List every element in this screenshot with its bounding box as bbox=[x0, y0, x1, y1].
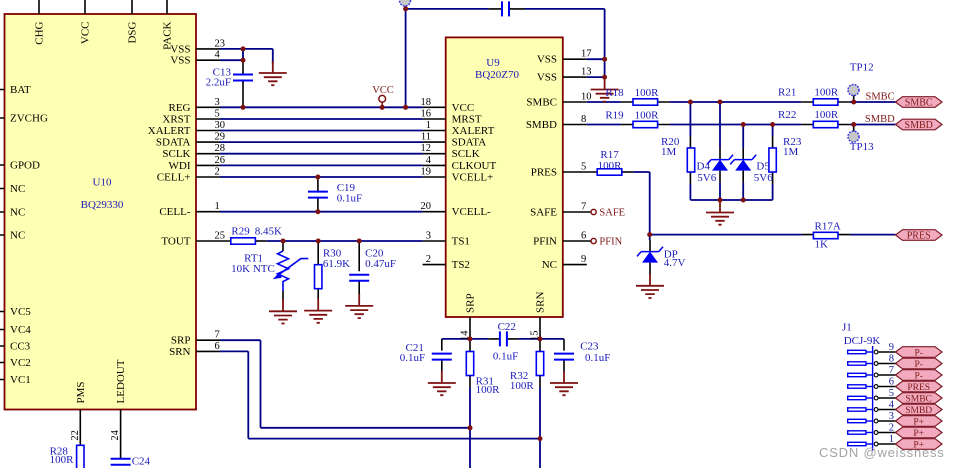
svg-text:SDATA: SDATA bbox=[156, 137, 191, 149]
svg-text:4: 4 bbox=[426, 155, 432, 166]
svg-text:XALERT: XALERT bbox=[452, 125, 495, 137]
svg-text:SMBD: SMBD bbox=[905, 406, 932, 416]
svg-text:30: 30 bbox=[215, 120, 226, 131]
svg-text:VSS: VSS bbox=[537, 72, 557, 84]
svg-text:2: 2 bbox=[426, 254, 431, 265]
svg-text:NC: NC bbox=[10, 207, 25, 219]
svg-text:LEDOUT: LEDOUT bbox=[115, 359, 127, 403]
svg-text:0.47uF: 0.47uF bbox=[365, 258, 396, 270]
svg-text:SRP: SRP bbox=[465, 293, 477, 313]
svg-text:3: 3 bbox=[889, 411, 894, 422]
svg-text:BQ29330: BQ29330 bbox=[81, 199, 124, 211]
svg-text:VC1: VC1 bbox=[10, 374, 31, 386]
svg-text:SAFE: SAFE bbox=[530, 207, 557, 219]
svg-text:5: 5 bbox=[215, 109, 220, 120]
svg-text:VC5: VC5 bbox=[10, 306, 31, 318]
svg-text:SMBC: SMBC bbox=[905, 395, 931, 405]
svg-text:8.45K: 8.45K bbox=[255, 226, 282, 238]
svg-text:SCLK: SCLK bbox=[162, 148, 190, 160]
svg-text:100R: 100R bbox=[476, 384, 501, 396]
svg-text:NC: NC bbox=[542, 259, 557, 271]
svg-text:20: 20 bbox=[421, 201, 432, 212]
svg-text:CELL-: CELL- bbox=[159, 206, 190, 218]
svg-text:U10: U10 bbox=[93, 177, 112, 189]
svg-text:SRN: SRN bbox=[169, 346, 190, 358]
svg-text:6: 6 bbox=[215, 341, 220, 352]
svg-text:8: 8 bbox=[889, 353, 894, 364]
svg-text:5V6: 5V6 bbox=[754, 172, 773, 184]
svg-text:29: 29 bbox=[215, 132, 226, 143]
svg-text:PMS: PMS bbox=[75, 381, 87, 403]
svg-text:VCC: VCC bbox=[80, 22, 92, 45]
svg-text:SRP: SRP bbox=[171, 335, 191, 347]
svg-text:2: 2 bbox=[889, 422, 894, 433]
svg-text:7: 7 bbox=[889, 365, 894, 376]
svg-text:11: 11 bbox=[421, 132, 431, 143]
svg-text:D4: D4 bbox=[697, 161, 711, 173]
svg-text:TP12: TP12 bbox=[850, 62, 874, 74]
svg-text:100R: 100R bbox=[598, 160, 623, 172]
svg-text:28: 28 bbox=[215, 143, 226, 154]
svg-text:XALERT: XALERT bbox=[148, 125, 191, 137]
svg-text:100R: 100R bbox=[50, 454, 75, 466]
svg-text:5V6: 5V6 bbox=[697, 172, 716, 184]
svg-text:6: 6 bbox=[581, 231, 586, 242]
svg-text:VCELL+: VCELL+ bbox=[452, 172, 494, 184]
svg-text:NC: NC bbox=[10, 230, 25, 242]
svg-text:C24: C24 bbox=[132, 456, 151, 468]
svg-text:C23: C23 bbox=[580, 341, 599, 353]
svg-text:SAFE: SAFE bbox=[599, 208, 625, 219]
svg-text:VCC: VCC bbox=[372, 85, 394, 96]
svg-text:R19: R19 bbox=[605, 109, 624, 121]
svg-text:TP13: TP13 bbox=[850, 141, 874, 153]
svg-text:J1: J1 bbox=[842, 322, 852, 334]
svg-text:6: 6 bbox=[889, 376, 894, 387]
svg-text:0.1uF: 0.1uF bbox=[585, 352, 610, 364]
svg-text:9: 9 bbox=[889, 342, 894, 353]
svg-text:P-: P- bbox=[914, 372, 922, 382]
svg-text:P-: P- bbox=[914, 360, 922, 370]
svg-text:SMBD: SMBD bbox=[865, 114, 895, 125]
svg-text:SDATA: SDATA bbox=[452, 137, 487, 149]
svg-text:SRN: SRN bbox=[535, 292, 547, 313]
svg-text:0.1uF: 0.1uF bbox=[337, 193, 362, 205]
svg-text:SMBC: SMBC bbox=[905, 98, 933, 109]
svg-text:SMBD: SMBD bbox=[905, 120, 933, 131]
svg-text:R22: R22 bbox=[778, 109, 796, 121]
svg-text:TOUT: TOUT bbox=[161, 236, 190, 248]
svg-text:4.7V: 4.7V bbox=[664, 257, 686, 269]
svg-text:WDI: WDI bbox=[169, 160, 191, 172]
svg-text:R29: R29 bbox=[231, 226, 250, 238]
svg-text:8: 8 bbox=[581, 114, 586, 125]
svg-text:PACK: PACK bbox=[162, 21, 174, 49]
svg-text:GPOD: GPOD bbox=[10, 160, 40, 172]
svg-text:DSG: DSG bbox=[127, 21, 139, 43]
svg-text:17: 17 bbox=[581, 49, 592, 60]
svg-text:NC: NC bbox=[10, 183, 25, 195]
svg-text:PRES: PRES bbox=[907, 231, 931, 242]
svg-text:22: 22 bbox=[70, 430, 81, 441]
svg-text:R18: R18 bbox=[605, 87, 624, 99]
svg-text:10K NTC: 10K NTC bbox=[231, 263, 275, 275]
svg-text:2: 2 bbox=[215, 167, 220, 178]
svg-text:TS2: TS2 bbox=[452, 259, 470, 271]
svg-text:VCELL-: VCELL- bbox=[452, 206, 491, 218]
svg-text:XRST: XRST bbox=[162, 114, 190, 126]
svg-text:10: 10 bbox=[581, 92, 592, 103]
svg-text:2.2uF: 2.2uF bbox=[206, 76, 231, 88]
svg-text:9: 9 bbox=[581, 254, 586, 265]
svg-text:VC4: VC4 bbox=[10, 324, 31, 336]
svg-text:14: 14 bbox=[460, 330, 471, 341]
svg-text:CLKOUT: CLKOUT bbox=[452, 160, 497, 172]
svg-text:3: 3 bbox=[426, 231, 431, 242]
svg-text:100R: 100R bbox=[814, 86, 839, 98]
svg-text:61.9K: 61.9K bbox=[323, 258, 350, 270]
svg-text:U9: U9 bbox=[486, 57, 500, 69]
svg-text:TS1: TS1 bbox=[452, 236, 470, 248]
svg-text:R17A: R17A bbox=[815, 220, 841, 232]
svg-text:CC3: CC3 bbox=[10, 341, 31, 353]
svg-text:P+: P+ bbox=[913, 429, 924, 439]
svg-text:CSDN @weissness: CSDN @weissness bbox=[819, 445, 945, 460]
svg-text:13: 13 bbox=[581, 67, 592, 78]
svg-text:7: 7 bbox=[215, 330, 220, 341]
svg-text:24: 24 bbox=[110, 429, 121, 440]
svg-text:R21: R21 bbox=[778, 86, 796, 98]
svg-text:BAT: BAT bbox=[10, 84, 31, 96]
svg-text:15: 15 bbox=[530, 331, 541, 342]
svg-text:MRST: MRST bbox=[452, 114, 482, 126]
svg-text:1: 1 bbox=[889, 434, 894, 445]
svg-text:VC2: VC2 bbox=[10, 357, 31, 369]
svg-text:BQ20Z70: BQ20Z70 bbox=[475, 69, 520, 81]
svg-text:100R: 100R bbox=[510, 380, 535, 392]
svg-text:CELL+: CELL+ bbox=[157, 172, 191, 184]
svg-text:12: 12 bbox=[421, 143, 432, 154]
svg-text:P-: P- bbox=[914, 349, 922, 359]
svg-text:P+: P+ bbox=[913, 418, 924, 428]
svg-text:VSS: VSS bbox=[537, 54, 557, 66]
svg-text:PFIN: PFIN bbox=[533, 236, 557, 248]
svg-text:16: 16 bbox=[421, 109, 432, 120]
svg-text:5: 5 bbox=[581, 162, 586, 173]
svg-text:1: 1 bbox=[426, 120, 431, 131]
svg-text:26: 26 bbox=[215, 155, 226, 166]
svg-text:D5: D5 bbox=[756, 161, 770, 173]
svg-text:0.1uF: 0.1uF bbox=[400, 352, 425, 364]
svg-text:4: 4 bbox=[215, 50, 221, 61]
svg-text:100R: 100R bbox=[814, 109, 839, 121]
svg-text:VCC: VCC bbox=[452, 102, 475, 114]
svg-text:PRES: PRES bbox=[531, 167, 557, 179]
svg-text:19: 19 bbox=[421, 167, 432, 178]
svg-text:SMBC: SMBC bbox=[526, 97, 557, 109]
svg-text:SMBD: SMBD bbox=[526, 119, 557, 131]
svg-text:ZVCHG: ZVCHG bbox=[10, 113, 48, 125]
svg-text:1K: 1K bbox=[815, 239, 829, 251]
svg-text:1M: 1M bbox=[661, 146, 677, 158]
svg-text:4: 4 bbox=[889, 399, 895, 410]
svg-text:25: 25 bbox=[215, 231, 226, 242]
svg-text:100R: 100R bbox=[635, 87, 660, 99]
svg-text:REG: REG bbox=[169, 102, 191, 114]
svg-text:PRES: PRES bbox=[907, 383, 930, 393]
svg-text:1M: 1M bbox=[783, 146, 799, 158]
svg-text:C22: C22 bbox=[498, 321, 516, 333]
svg-text:VSS: VSS bbox=[170, 55, 190, 67]
svg-text:0.1uF: 0.1uF bbox=[493, 351, 518, 363]
svg-text:SMBC: SMBC bbox=[866, 91, 895, 102]
svg-text:CHG: CHG bbox=[34, 21, 46, 44]
svg-text:5: 5 bbox=[889, 388, 894, 399]
svg-text:23: 23 bbox=[215, 38, 226, 49]
svg-text:PFIN: PFIN bbox=[599, 237, 622, 248]
svg-text:3: 3 bbox=[215, 97, 220, 108]
svg-text:18: 18 bbox=[421, 97, 432, 108]
svg-text:1: 1 bbox=[215, 201, 220, 212]
svg-text:100R: 100R bbox=[635, 109, 660, 121]
svg-text:DCJ-9K: DCJ-9K bbox=[844, 335, 881, 347]
svg-text:7: 7 bbox=[581, 202, 586, 213]
svg-text:SCLK: SCLK bbox=[452, 148, 480, 160]
